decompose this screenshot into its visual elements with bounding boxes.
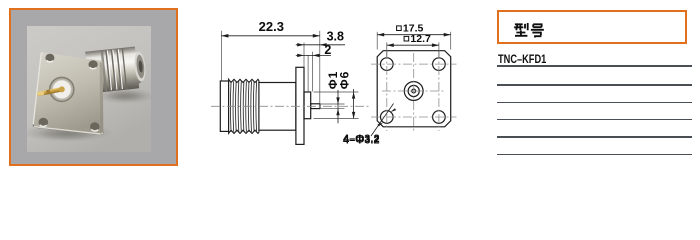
- svg-text:2: 2: [324, 43, 331, 57]
- svg-text:12.7: 12.7: [410, 33, 431, 45]
- svg-text:22.3: 22.3: [259, 19, 284, 34]
- svg-text:Φ6: Φ6: [337, 71, 351, 90]
- svg-text:3.8: 3.8: [327, 29, 344, 43]
- svg-text:4–Φ3.2: 4–Φ3.2: [343, 133, 380, 145]
